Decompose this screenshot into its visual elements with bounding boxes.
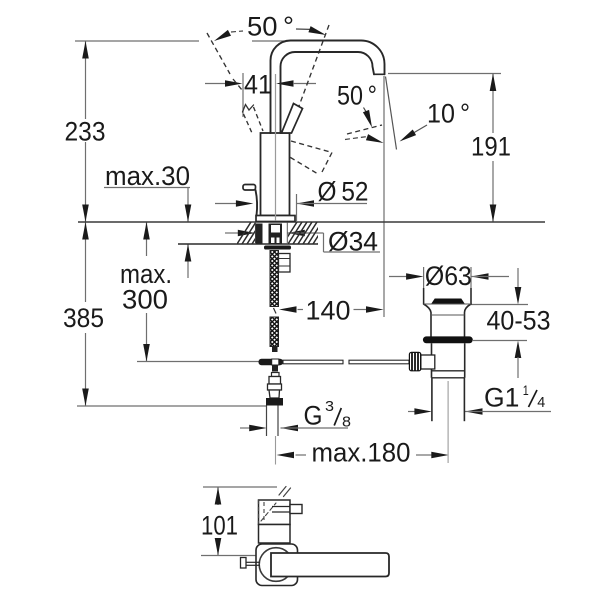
svg-text:233: 233 xyxy=(65,117,106,147)
svg-text:385: 385 xyxy=(63,303,104,333)
svg-text:10 °: 10 ° xyxy=(427,99,470,129)
svg-text:40-53: 40-53 xyxy=(487,306,551,336)
svg-text:50 °: 50 ° xyxy=(337,81,377,111)
svg-text:8: 8 xyxy=(342,414,351,431)
svg-text:G: G xyxy=(304,401,323,431)
svg-text:Ø63: Ø63 xyxy=(425,261,472,291)
svg-text:4: 4 xyxy=(537,395,545,411)
svg-text:Ø34: Ø34 xyxy=(328,227,378,257)
svg-text:Ø 52: Ø 52 xyxy=(318,177,369,207)
svg-text:max.180: max.180 xyxy=(312,438,411,468)
svg-text:41: 41 xyxy=(244,70,272,100)
svg-text:1: 1 xyxy=(523,382,529,398)
svg-text:50 °: 50 ° xyxy=(247,12,294,42)
svg-text:191: 191 xyxy=(471,132,511,162)
svg-text:3: 3 xyxy=(325,398,334,415)
svg-text:300: 300 xyxy=(122,285,168,315)
svg-text:101: 101 xyxy=(201,511,238,541)
svg-text:max.30: max.30 xyxy=(105,161,190,191)
svg-text:G1: G1 xyxy=(484,383,519,413)
svg-text:140: 140 xyxy=(306,296,351,326)
